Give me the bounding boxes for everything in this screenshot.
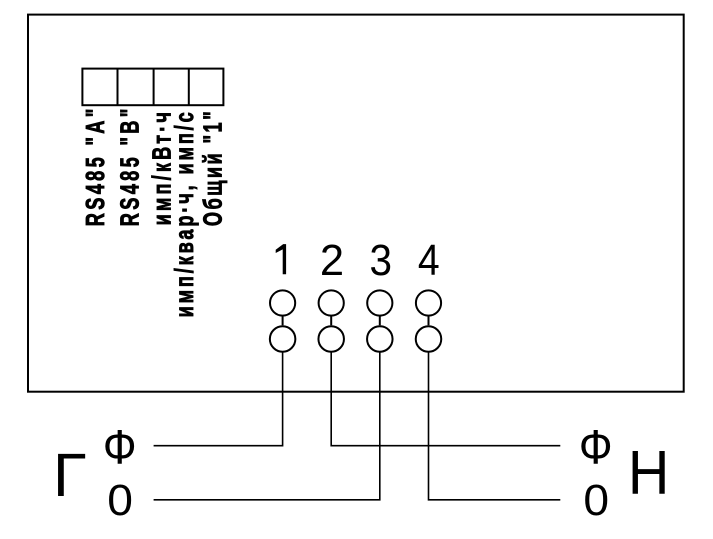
terminal 2 screws [318, 290, 344, 351]
svg-text:0: 0 [583, 475, 609, 525]
terminal 4 screws [416, 290, 442, 351]
terminal strip X1 [82, 69, 223, 106]
svg-text:Ф: Ф [103, 420, 137, 474]
svg-text:2: 2 [320, 237, 344, 285]
wire terminal 4 to load neutral [429, 352, 561, 500]
terminal number 1 [276, 244, 286, 274]
terminal 3 screws [367, 290, 393, 351]
terminal 1 screws [270, 290, 296, 351]
svg-text:RS485 "A": RS485 "A" [81, 109, 110, 227]
svg-text:Г: Г [53, 441, 86, 510]
svg-text:Ф: Ф [579, 420, 613, 474]
svg-text:Общий "1": Общий "1" [198, 111, 227, 226]
svg-text:3: 3 [369, 236, 391, 285]
meter body outline [28, 15, 684, 392]
wire terminal 1 to generator phase [154, 352, 283, 446]
svg-text:Н: Н [628, 438, 670, 508]
wire terminal 3 to generator neutral [154, 352, 380, 500]
svg-text:0: 0 [107, 475, 133, 525]
svg-text:RS485 "B": RS485 "B" [115, 109, 144, 227]
svg-text:4: 4 [418, 236, 440, 284]
wire terminal 2 to load phase [331, 352, 560, 446]
